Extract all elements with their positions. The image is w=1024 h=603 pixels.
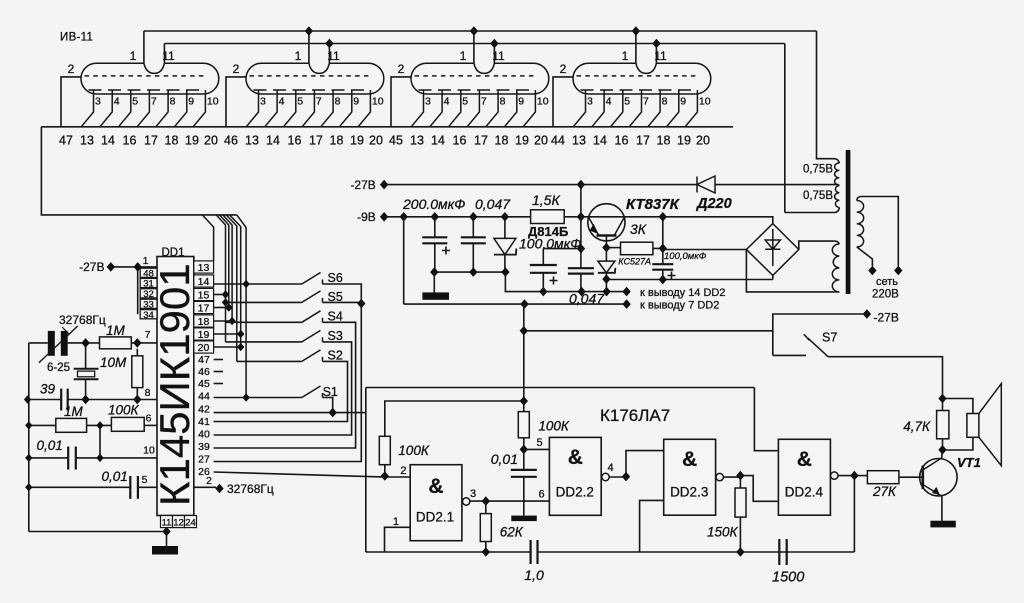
transformer T1 core xyxy=(846,150,851,294)
heater bus wire (upper, pins 1) xyxy=(144,30,817,32)
svg-text:2: 2 xyxy=(206,475,212,487)
tube 1 anode dashed line xyxy=(85,75,208,77)
tube 2 grid dashed line xyxy=(254,89,371,91)
wire 10М leads xyxy=(136,349,138,400)
crystal ZQ 32768Гц xyxy=(74,368,99,370)
transistor VT1 xyxy=(920,459,957,496)
tube 4 bus pin numbers xyxy=(551,134,710,148)
svg-text:VT1: VT1 xyxy=(957,455,981,470)
tube 1 bus pin numbers xyxy=(59,134,218,148)
node -27V rail xyxy=(380,180,388,190)
svg-text:6-25: 6-25 xyxy=(47,362,70,374)
ground bar DD2.2 xyxy=(511,516,537,522)
svg-text:2: 2 xyxy=(233,62,240,76)
svg-text:4: 4 xyxy=(279,96,285,108)
-27V rail wire xyxy=(384,184,696,186)
wire row 18 xyxy=(214,320,233,322)
wire to S2 xyxy=(237,360,302,362)
resistor 4,7К (vertical) xyxy=(937,411,949,439)
junction -9V/C2 xyxy=(469,212,477,222)
svg-text:3: 3 xyxy=(95,96,101,108)
wire row 19 xyxy=(214,333,241,335)
svg-text:14: 14 xyxy=(101,134,115,148)
svg-text:1М: 1М xyxy=(106,323,126,338)
junction row19 xyxy=(237,330,244,338)
svg-text:10: 10 xyxy=(699,96,711,108)
tube 4 heater pin 11 wire xyxy=(655,44,657,64)
wire -27V to DD1 pin 1 xyxy=(111,266,157,268)
junction row C / C0047 xyxy=(577,287,585,297)
tube 1 cathode pins xyxy=(81,90,205,127)
junction 100К feed xyxy=(520,396,528,406)
svg-text:8: 8 xyxy=(170,96,176,108)
resistor 1,5К xyxy=(531,210,565,224)
junction bus wire 7 / S6 xyxy=(242,280,249,288)
junction bottom VD xyxy=(501,267,509,277)
wire DD2.3 out to DD2.4 xyxy=(723,476,778,502)
svg-text:-9В: -9В xyxy=(357,210,376,224)
svg-text:К176ЛА7: К176ЛА7 xyxy=(600,406,670,425)
junction pin10 row xyxy=(96,454,103,462)
wire DD2.4 out to 27К xyxy=(838,475,867,477)
wire speaker top xyxy=(943,399,973,414)
junction base node xyxy=(577,212,585,222)
NAND gate DD2.2 xyxy=(549,437,601,515)
wire feedback left leg xyxy=(365,388,367,553)
junction 62К top xyxy=(482,496,490,506)
junction heater bus 11 / tube 2 xyxy=(325,39,333,49)
svg-text:11: 11 xyxy=(492,49,505,63)
svg-text:7: 7 xyxy=(481,96,487,108)
svg-text:200.0мкФ: 200.0мкФ xyxy=(402,196,465,212)
VFD tube ИВ-11 #2 body xyxy=(246,63,384,94)
svg-text:-27В: -27В xyxy=(79,260,104,274)
svg-text:18: 18 xyxy=(165,134,179,148)
svg-text:3: 3 xyxy=(260,96,266,108)
VFD tube ИВ-11 #3 body xyxy=(411,63,549,94)
svg-text:19: 19 xyxy=(677,134,691,148)
svg-text:DD2.4: DD2.4 xyxy=(785,485,824,500)
svg-text:4: 4 xyxy=(114,96,120,108)
svg-text:8: 8 xyxy=(500,96,506,108)
junction left rail / pin5 row xyxy=(25,483,32,491)
junction heater bus 11 / tube 4 xyxy=(652,39,660,49)
svg-text:34: 34 xyxy=(143,310,154,321)
svg-text:150К: 150К xyxy=(707,525,739,540)
-9V rail wire xyxy=(384,216,530,218)
wire speaker bottom xyxy=(943,437,973,450)
wire DD2.1 out to DD2.2 pin 6 xyxy=(470,500,550,502)
svg-text:10М: 10М xyxy=(100,355,127,370)
tube 3 anode dashed line xyxy=(415,75,538,77)
wire 27К to VT1 base xyxy=(899,476,922,478)
wire to S4 xyxy=(226,321,302,323)
node -27V at DD1 xyxy=(107,262,115,272)
svg-text:13: 13 xyxy=(572,134,586,148)
svg-text:17: 17 xyxy=(309,134,323,148)
winding III bottom stub xyxy=(834,291,839,293)
svg-text:7: 7 xyxy=(151,96,157,108)
svg-text:17: 17 xyxy=(636,134,650,148)
tube 2 heater pin 1 wire xyxy=(308,31,310,63)
capacitor 100,0мкФ (output) xyxy=(662,248,664,279)
svg-text:8: 8 xyxy=(145,387,151,399)
ground bar DD1 xyxy=(152,546,178,555)
svg-text:16: 16 xyxy=(615,134,629,148)
tube 3 pin number labels xyxy=(425,96,549,108)
wire feedback to DD2.4 upper input xyxy=(754,388,778,451)
junction row17 xyxy=(225,303,232,311)
junction row D / DD2 drop xyxy=(520,299,528,309)
svg-text:ИВ-11: ИВ-11 xyxy=(60,32,93,44)
node 32768Hz out xyxy=(215,484,223,494)
junction 3К/C3 xyxy=(659,244,667,254)
junction bus wire 7 / S1 xyxy=(242,393,249,401)
wire pin1-48..34 tie xyxy=(137,267,139,314)
svg-text:1: 1 xyxy=(393,516,399,528)
wire S3 return to pin 40 xyxy=(214,342,352,435)
svg-text:0,75В: 0,75В xyxy=(803,190,833,202)
svg-text:24: 24 xyxy=(185,517,196,528)
DD1 bottom pin box 12 xyxy=(173,516,185,528)
svg-text:42: 42 xyxy=(198,404,210,416)
junction row18 xyxy=(228,317,235,325)
tube 4 anode dashed line xyxy=(577,75,700,77)
svg-text:-27В: -27В xyxy=(350,178,375,192)
junction supply row xyxy=(520,326,528,336)
trimmer capacitor 6-25 xyxy=(48,331,55,356)
svg-text:10: 10 xyxy=(143,445,155,457)
wire to power ground xyxy=(433,272,435,292)
svg-text:7: 7 xyxy=(643,96,649,108)
svg-text:3: 3 xyxy=(425,96,431,108)
svg-text:39: 39 xyxy=(40,382,56,397)
wire DD2 supply row to S7 branch xyxy=(524,330,773,332)
svg-text:9: 9 xyxy=(518,96,524,108)
svg-text:18: 18 xyxy=(330,134,344,148)
VFD tube ИВ-11 #4 body xyxy=(573,63,711,94)
wire 1,5К to base node xyxy=(564,216,581,218)
junction collector node xyxy=(659,212,667,222)
junction 150К bottom xyxy=(736,547,744,557)
resistor 3К xyxy=(621,242,653,255)
wire -27V down to base node xyxy=(580,185,582,217)
junction row C / C100 xyxy=(539,287,547,297)
resistor 100К (DD2.2) xyxy=(518,412,529,438)
DD1 right pin box 19 xyxy=(194,328,214,340)
svg-text:0,047: 0,047 xyxy=(475,196,511,212)
svg-text:1: 1 xyxy=(143,255,149,267)
wire 1М#2 to 100К xyxy=(87,424,112,426)
VFD tube ИВ-11 #1 body xyxy=(81,63,219,94)
tube 4 cathode pins xyxy=(573,90,697,127)
tube 1 heater pin 11 wire xyxy=(163,44,165,64)
svg-text:2: 2 xyxy=(560,62,567,76)
wire pin 10 row xyxy=(29,457,157,459)
wire pin 8 row xyxy=(28,399,157,401)
svg-text:5: 5 xyxy=(297,96,303,108)
svg-text:&: & xyxy=(797,448,812,471)
wire S5 to S6 vertical xyxy=(323,301,360,303)
svg-text:14: 14 xyxy=(593,134,607,148)
svg-text:39: 39 xyxy=(198,441,210,453)
wire bridge left to winding 3 bottom xyxy=(746,250,834,292)
svg-text:20: 20 xyxy=(198,342,210,354)
wire row 47 stub xyxy=(214,359,223,361)
svg-text:DD2.3: DD2.3 xyxy=(670,485,708,500)
svg-text:20: 20 xyxy=(369,134,383,148)
switch S4 xyxy=(302,311,323,323)
svg-text:9: 9 xyxy=(680,96,686,108)
svg-text:5: 5 xyxy=(624,96,630,108)
winding III top corner xyxy=(834,241,839,244)
svg-text:5: 5 xyxy=(462,96,468,108)
DD1 left pin box 31 xyxy=(140,278,157,287)
wire filter bottom row xyxy=(434,271,505,273)
wire S4 return to pin 39 xyxy=(214,322,356,448)
tube 1 pin number labels xyxy=(95,96,219,108)
svg-text:0,75В: 0,75В xyxy=(803,164,833,176)
transformer winding I (0,75В) xyxy=(835,163,840,185)
NAND gate DD2.4 xyxy=(778,439,830,515)
svg-text:44: 44 xyxy=(551,134,565,148)
capacitor 39 xyxy=(60,389,62,411)
wire 3К right to collector line xyxy=(653,217,663,249)
speaker BA1 xyxy=(967,414,979,438)
junction pin1/pin48 xyxy=(134,262,142,272)
junction left rail / pin6 row xyxy=(25,421,32,429)
svg-text:к выводу 7 DD2: к выводу 7 DD2 xyxy=(640,300,719,312)
svg-text:220В: 220В xyxy=(872,289,899,301)
resistor 1М (osc top) xyxy=(100,337,132,349)
wire bridge bottom xyxy=(772,275,774,279)
DD2.2 output bubble pin 4 xyxy=(602,473,609,480)
svg-text:1: 1 xyxy=(460,49,467,63)
junction left rail / pin10 row xyxy=(25,454,32,462)
svg-text:DD2.1: DD2.1 xyxy=(416,510,454,525)
wire out down to rail end xyxy=(853,476,855,552)
svg-text:20: 20 xyxy=(696,134,710,148)
wire bridge right to winding 3 top xyxy=(799,241,835,249)
junction left rail / pin8 row xyxy=(24,395,31,403)
svg-text:27К: 27К xyxy=(872,484,897,499)
svg-text:13: 13 xyxy=(245,134,259,148)
junction bottom C2 xyxy=(469,267,477,277)
capacitor 0,01 (pin 5) xyxy=(129,476,131,499)
wire junction down xyxy=(99,425,101,458)
wire to -14V row (к выводу 14) xyxy=(505,272,626,292)
wire DD2.2 out to DD2.3 xyxy=(609,451,664,477)
svg-text:41: 41 xyxy=(198,416,210,428)
junction 150К top xyxy=(736,471,744,481)
wire S1 return xyxy=(323,398,333,413)
wire DD2.3 pin lower input xyxy=(640,500,664,552)
junction -9V/C1 xyxy=(431,212,439,222)
capacitor 0,047 (power) xyxy=(472,217,474,272)
junction bottom C1 xyxy=(430,267,438,277)
switch S5 xyxy=(302,291,323,303)
switch S6 xyxy=(302,273,323,285)
svg-text:19: 19 xyxy=(350,134,364,148)
svg-text:S4: S4 xyxy=(328,310,343,324)
svg-text:0,047: 0,047 xyxy=(569,291,605,307)
wire 100К#2 to pin 5 xyxy=(524,438,550,450)
zener diode Д814Б xyxy=(504,217,506,272)
svg-text:К145ИК1901: К145ИК1901 xyxy=(151,263,198,506)
svg-text:3: 3 xyxy=(587,96,593,108)
svg-text:3: 3 xyxy=(470,488,476,500)
bus trunk wire down-left xyxy=(41,127,236,215)
svg-text:КТ837К: КТ837К xyxy=(626,196,681,213)
long feedback wire to DD2.4 xyxy=(366,387,755,389)
wire row 26 to DD2.1 pin 2 xyxy=(214,472,411,477)
svg-text:100К: 100К xyxy=(538,419,570,434)
wire to S3 xyxy=(226,341,302,343)
DD2.3 output bubble xyxy=(716,473,723,480)
resistor 1М (pin 6 row) xyxy=(56,418,87,432)
NAND gate DD2.3 xyxy=(664,439,716,515)
resistor 62К xyxy=(480,514,491,542)
transistor КТ837К xyxy=(588,204,625,241)
tube 3 heater pin 1 wire xyxy=(473,31,475,63)
wire 100К#1 to pin 2 row xyxy=(384,465,386,476)
wire to 100К #1 xyxy=(385,401,524,436)
svg-text:17: 17 xyxy=(198,303,210,315)
tube 4 grid dashed line xyxy=(581,89,698,91)
wire to S5 xyxy=(226,301,302,303)
capacitor 200.0мкФ xyxy=(434,217,436,272)
svg-text:10: 10 xyxy=(372,96,384,108)
junction VT1 collector xyxy=(938,445,946,455)
svg-text:18: 18 xyxy=(657,134,671,148)
heater bus wire (lower, pins 11) xyxy=(164,43,784,45)
tube 2 pin number labels xyxy=(260,96,384,108)
capacitor 0,01 (DD2.2) xyxy=(523,449,525,515)
DD1 right pin box 13 xyxy=(194,261,214,273)
svg-text:47: 47 xyxy=(59,134,73,148)
switch S1 xyxy=(302,386,323,398)
tube 4 pin number labels xyxy=(587,96,711,108)
node mains right xyxy=(894,266,902,276)
svg-text:14: 14 xyxy=(431,134,445,148)
wire VT1 collector xyxy=(941,450,943,458)
svg-text:19: 19 xyxy=(515,134,529,148)
tube 2 bus pin numbers xyxy=(224,134,383,148)
svg-text:3К: 3К xyxy=(630,221,647,237)
wire row 46 stub xyxy=(214,371,223,373)
svg-text:100,0мкФ: 100,0мкФ xyxy=(664,251,707,262)
wire S6 return to pin 27 xyxy=(214,284,362,462)
ground bar VT1 xyxy=(930,521,955,528)
tube 2 heater pin 11 wire xyxy=(328,44,330,64)
wire 150К leads xyxy=(739,476,741,552)
bridge rectifier xyxy=(746,224,798,276)
DD1 left pin box 34 xyxy=(140,310,157,319)
svg-text:14: 14 xyxy=(266,134,280,148)
svg-text:7: 7 xyxy=(316,96,322,108)
svg-text:&: & xyxy=(568,446,583,469)
svg-text:18: 18 xyxy=(198,316,210,328)
resistor 100К (DD2.1) xyxy=(379,436,390,464)
svg-text:15: 15 xyxy=(198,290,210,302)
svg-text:S7: S7 xyxy=(822,331,837,345)
DD1 bottom pin box 24 xyxy=(185,516,197,528)
crystal label tick xyxy=(62,327,69,334)
svg-text:S1: S1 xyxy=(323,385,338,399)
DD1 bottom pin box 11 xyxy=(161,516,173,528)
capacitor 0,047 (base filter) xyxy=(580,217,582,292)
junction pin 5 node xyxy=(520,445,528,455)
arrow к выводу 14 xyxy=(622,287,630,297)
capacitor 0,01 (pin 10) xyxy=(67,447,69,470)
tube 1 grid dashed line xyxy=(89,89,206,91)
bottom rail wire to ground node xyxy=(29,531,167,533)
winding mid tap stub xyxy=(838,184,841,186)
wire heater bus 1 to winding I xyxy=(817,31,840,163)
node -9V rail xyxy=(380,212,388,222)
tube 3 grid dashed line xyxy=(419,89,536,91)
junction 1М/100К xyxy=(96,421,103,429)
svg-text:11: 11 xyxy=(654,49,667,63)
junction heater bus 11 / tube 3 xyxy=(490,39,498,49)
svg-text:2: 2 xyxy=(400,465,406,477)
junction base caps xyxy=(577,244,585,254)
svg-text:20: 20 xyxy=(204,134,218,148)
svg-text:10: 10 xyxy=(537,96,549,108)
svg-text:2: 2 xyxy=(398,62,405,76)
wire left rail to 1М#2 xyxy=(29,424,56,426)
junction heater bus 1 / tube 2 xyxy=(305,26,313,36)
resistor 27К xyxy=(867,471,899,484)
svg-text:7: 7 xyxy=(145,329,151,341)
svg-text:32768Гц: 32768Гц xyxy=(59,313,106,327)
DD1 right pin box 18 xyxy=(194,315,214,327)
DD1 right pin box 20 xyxy=(194,341,214,353)
bus fan-out elbow wires to DD1 xyxy=(202,215,246,398)
svg-text:100К: 100К xyxy=(108,403,140,418)
wire to 3К xyxy=(606,247,620,249)
svg-text:5: 5 xyxy=(537,437,543,449)
switch S3 xyxy=(302,330,323,342)
wire collector line to bridge top xyxy=(663,217,773,224)
DD1 right pin box 14 xyxy=(194,275,214,287)
junction pin 8 node xyxy=(133,395,141,405)
wire S2 return to pin 41 xyxy=(214,361,348,421)
wire к выводу 7 row xyxy=(404,217,627,304)
tube 3 pin 2 wire xyxy=(391,77,411,127)
wire 100К to pin 6 xyxy=(144,424,157,426)
svg-text:27: 27 xyxy=(198,454,210,466)
junction S1 / row 42 xyxy=(329,408,337,418)
wire to S6 (row 14) xyxy=(214,283,302,285)
svg-text:17: 17 xyxy=(144,134,158,148)
junction S5/S6 verticals xyxy=(357,299,365,309)
arrow к выводу 7 xyxy=(622,299,630,309)
DD1 left pin box 48 xyxy=(140,268,157,277)
tube 1 pin 2 wire xyxy=(61,77,81,127)
svg-text:1: 1 xyxy=(130,49,137,63)
capacitor 1,0 xyxy=(529,540,531,564)
tube 3 cathode pins xyxy=(411,90,535,127)
IC DD1 К145ИК1901 body xyxy=(157,257,194,516)
svg-text:20: 20 xyxy=(534,134,548,148)
tube cathode bus wire xyxy=(41,126,733,128)
DD1 left pin box 32 xyxy=(140,289,157,298)
wire 4,7К leads xyxy=(942,399,944,450)
wire row 44 to S1 xyxy=(214,397,302,399)
tube 3 bus pin numbers xyxy=(389,134,548,148)
svg-text:13: 13 xyxy=(80,134,94,148)
